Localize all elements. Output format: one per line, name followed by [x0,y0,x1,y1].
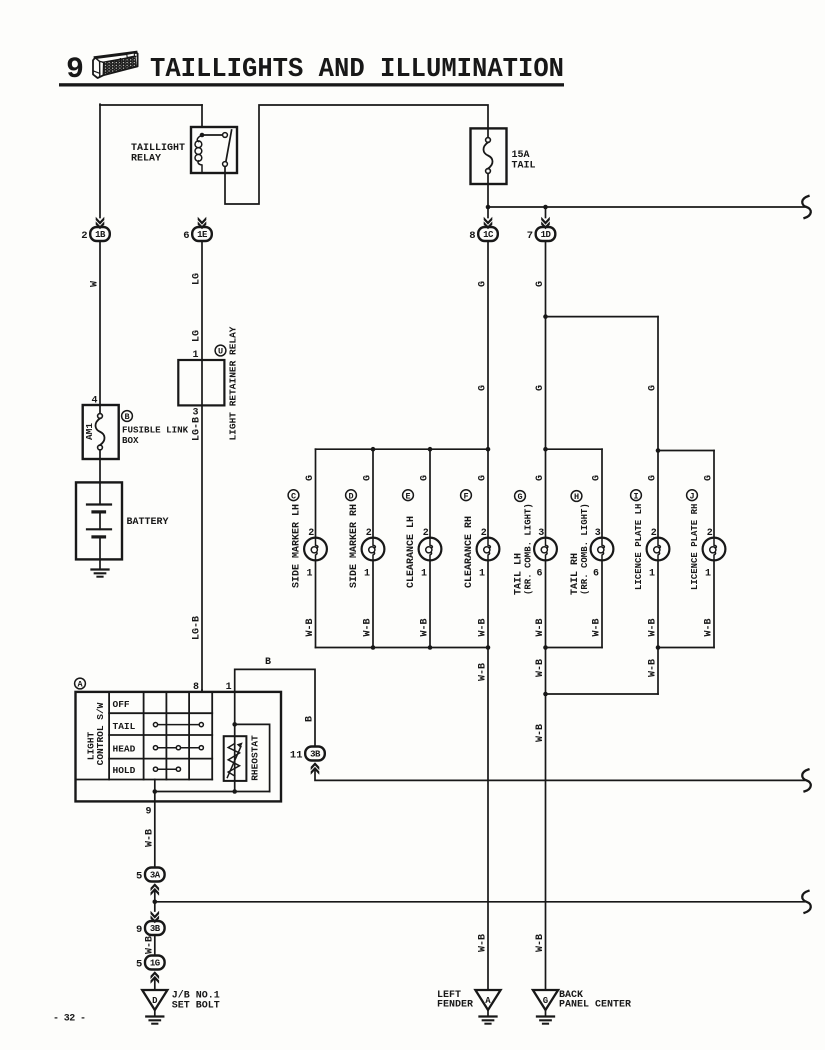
svg-text:G: G [420,475,431,481]
svg-text:TAIL: TAIL [512,161,536,172]
svg-text:W-B: W-B [535,618,546,636]
svg-text:TAILLIGHT: TAILLIGHT [131,143,185,154]
svg-text:W-B: W-B [535,934,546,952]
svg-text:W-B: W-B [144,936,155,954]
svg-text:1D: 1D [541,230,552,240]
svg-text:LICENCE PLATE LH: LICENCE PLATE LH [634,504,644,590]
svg-text:A: A [77,680,83,690]
svg-text:6: 6 [183,230,189,242]
svg-text:W-B: W-B [535,659,546,677]
svg-text:W-B: W-B [478,618,489,636]
svg-text:W-B: W-B [144,829,155,847]
svg-text:A: A [485,996,491,1006]
svg-text:5: 5 [136,870,142,882]
svg-text:2: 2 [423,528,429,539]
svg-text:E: E [405,491,410,501]
svg-text:11: 11 [290,749,303,761]
svg-text:3A: 3A [150,871,161,881]
svg-text:G: G [535,475,546,481]
svg-text:W-B: W-B [648,618,659,636]
svg-text:G: G [704,475,715,481]
svg-text:6: 6 [536,569,542,580]
svg-text:1G: 1G [150,959,160,969]
svg-text:9: 9 [66,53,84,87]
svg-text:G: G [478,281,489,287]
svg-text:1E: 1E [197,230,208,240]
svg-text:SET BOLT: SET BOLT [172,1001,220,1012]
svg-text:1B: 1B [95,230,106,240]
svg-text:HEAD: HEAD [113,744,136,755]
svg-text:W-B: W-B [535,724,546,742]
svg-text:1: 1 [364,569,370,580]
svg-text:6: 6 [593,569,599,580]
svg-text:W-B: W-B [478,934,489,952]
svg-text:RHEOSTAT: RHEOSTAT [250,735,261,781]
svg-text:5: 5 [136,958,142,970]
svg-text:8: 8 [193,682,199,693]
svg-text:FUSIBLE LINK: FUSIBLE LINK [122,425,189,436]
svg-text:PANEL CENTER: PANEL CENTER [559,1000,631,1011]
svg-text:3B: 3B [310,750,321,760]
svg-text:CLEARANCE RH: CLEARANCE RH [464,516,475,588]
svg-text:D: D [348,491,353,501]
svg-text:1: 1 [226,682,232,693]
svg-text:F: F [463,491,468,501]
svg-text:B: B [124,412,129,422]
svg-text:2: 2 [481,528,487,539]
svg-text:1: 1 [649,569,655,580]
svg-text:H: H [574,492,579,502]
svg-text:G: G [543,996,548,1006]
svg-text:BOX: BOX [122,435,139,446]
svg-text:OFF: OFF [113,699,130,710]
svg-text:J: J [689,491,694,501]
svg-text:2: 2 [308,528,314,539]
svg-text:FENDER: FENDER [437,1000,473,1011]
svg-text:2: 2 [366,528,372,539]
svg-text:W-B: W-B [305,618,316,636]
svg-text:C: C [291,491,296,501]
svg-text:3: 3 [538,528,544,539]
svg-text:B: B [305,716,316,722]
svg-text:9: 9 [136,924,142,936]
svg-text:(RR. COMB. LIGHT): (RR. COMB. LIGHT) [524,503,534,595]
svg-text:BATTERY: BATTERY [127,517,169,528]
svg-text:G: G [648,475,659,481]
svg-text:LICENCE PLATE RH: LICENCE PLATE RH [690,504,700,590]
svg-text:LG-B: LG-B [192,417,203,441]
svg-text:7: 7 [527,230,533,242]
svg-text:W: W [90,281,101,287]
svg-text:G: G [363,475,374,481]
svg-text:G: G [478,475,489,481]
svg-text:15A: 15A [512,150,530,161]
svg-text:HOLD: HOLD [113,765,136,776]
svg-text:B: B [265,657,271,668]
svg-text:LG: LG [192,273,203,285]
svg-text:W-B: W-B [648,659,659,677]
svg-text:3B: 3B [150,924,161,934]
svg-text:CONTROL S/W: CONTROL S/W [95,702,106,765]
svg-text:1: 1 [306,569,312,580]
svg-text:- 32 -: - 32 - [53,1014,85,1025]
svg-text:G: G [592,475,603,481]
svg-text:9: 9 [145,807,151,818]
svg-text:G: G [517,492,522,502]
svg-text:W-B: W-B [592,618,603,636]
svg-text:TAILLIGHTS AND ILLUMINATION: TAILLIGHTS AND ILLUMINATION [150,55,564,85]
svg-text:U: U [218,347,223,357]
svg-text:3: 3 [595,528,601,539]
svg-text:W-B: W-B [704,618,715,636]
svg-text:3: 3 [192,408,198,419]
svg-text:SIDE MARKER RH: SIDE MARKER RH [349,504,360,588]
svg-text:8: 8 [469,230,475,242]
svg-text:2: 2 [707,528,713,539]
svg-text:1: 1 [479,569,485,580]
svg-text:2: 2 [651,528,657,539]
svg-text:G: G [535,385,546,391]
svg-text:RELAY: RELAY [131,154,161,165]
svg-text:1: 1 [421,569,427,580]
svg-text:W-B: W-B [420,618,431,636]
svg-text:LG: LG [192,330,203,342]
svg-text:1C: 1C [483,230,494,240]
svg-text:G: G [305,475,316,481]
svg-text:G: G [478,385,489,391]
svg-text:G: G [535,281,546,287]
svg-text:I: I [633,491,638,501]
svg-text:1: 1 [705,569,711,580]
svg-text:SIDE MARKER LH: SIDE MARKER LH [292,504,303,588]
svg-text:D: D [152,996,158,1006]
svg-text:CLEARANCE LH: CLEARANCE LH [406,516,417,588]
svg-text:W-B: W-B [478,663,489,681]
svg-text:LG-B: LG-B [192,616,203,640]
svg-text:W-B: W-B [363,618,374,636]
svg-text:AM1: AM1 [84,423,95,440]
svg-text:(RR. COMB. LIGHT): (RR. COMB. LIGHT) [580,503,590,595]
svg-text:TAIL: TAIL [113,721,136,732]
svg-text:2: 2 [81,230,87,242]
svg-text:G: G [648,385,659,391]
svg-text:LIGHT RETAINER RELAY: LIGHT RETAINER RELAY [228,326,239,440]
